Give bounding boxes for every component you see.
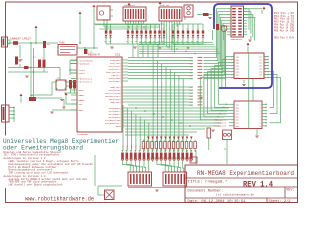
svg-text:8: 8: [265, 68, 266, 70]
svg-text:7805: 7805: [59, 42, 65, 45]
svg-text:8: 8: [259, 123, 260, 125]
svg-text:PD6 Pin 5 R/W: PD6 Pin 5 R/W: [274, 35, 294, 39]
svg-text:8: 8: [265, 62, 266, 64]
svg-text:IC1: IC1: [115, 53, 121, 56]
svg-text:TITLE: rnmega8.*: TITLE: rnmega8.*: [188, 180, 228, 185]
svg-text:R1: R1: [181, 41, 183, 43]
svg-text:LE: LE: [153, 28, 155, 30]
svg-text:PB0: PB0: [189, 99, 192, 101]
svg-text:PB5(SCK): PB5(SCK): [110, 101, 121, 104]
svg-text:PB0: PB0: [189, 102, 192, 104]
svg-text:MEGA8-P: MEGA8-P: [88, 53, 101, 56]
svg-text:Date: 08.12.2004 10:15:51: Date: 08.12.2004 10:15:51: [188, 200, 247, 204]
svg-text:LE: LE: [126, 28, 128, 30]
svg-text:8: 8: [259, 126, 260, 128]
svg-text:R1: R1: [201, 41, 203, 43]
svg-text:LE: LE: [176, 28, 178, 30]
svg-text:R1: R1: [104, 41, 106, 43]
svg-text:SUB-D9: SUB-D9: [160, 4, 170, 7]
svg-text:ADC6: ADC6: [116, 125, 122, 128]
svg-text:R1: R1: [135, 41, 137, 43]
svg-text:2: 2: [231, 62, 232, 64]
svg-text:R1: R1: [186, 41, 188, 43]
svg-text:2: 2: [231, 71, 232, 73]
svg-text:R1: R1: [158, 41, 160, 43]
svg-text:2: 2: [231, 77, 232, 79]
svg-text:2: 2: [231, 65, 232, 67]
svg-text:PD0: PD0: [189, 60, 192, 62]
svg-text:2: 2: [231, 68, 232, 70]
svg-text:XTAL2: XTAL2: [79, 72, 86, 75]
svg-text:AGND: AGND: [79, 99, 85, 102]
svg-text:R1: R1: [162, 41, 164, 43]
svg-text:PD0: PD0: [189, 69, 192, 71]
svg-text:(c) robotikhardware.de: (c) robotikhardware.de: [216, 192, 254, 196]
svg-text:PD0: PD0: [189, 72, 192, 74]
svg-text:10k: 10k: [19, 58, 24, 61]
svg-text:8: 8: [265, 77, 266, 79]
svg-text:VCC: VCC: [79, 103, 84, 106]
svg-text:PB0: PB0: [189, 96, 192, 98]
svg-text:PD6 Pin 14 IRQ: PD6 Pin 14 IRQ: [274, 28, 294, 32]
svg-text:REV 1.4: REV 1.4: [243, 182, 273, 190]
svg-text:R1: R1: [191, 41, 193, 43]
svg-text:LWC Ausfall sehr Board eingesc: LWC Ausfall sehr Board eingeschaltet: [9, 184, 64, 187]
svg-text:PD7(AIN1): PD7(AIN1): [109, 80, 121, 83]
svg-text:R1: R1: [176, 41, 178, 43]
svg-text:8: 8: [265, 56, 266, 58]
svg-text:PD0: PD0: [189, 63, 192, 65]
svg-text:8: 8: [265, 71, 266, 73]
svg-text:LE: LE: [196, 28, 198, 30]
svg-text:PD0: PD0: [189, 57, 192, 59]
svg-text:8: 8: [259, 120, 260, 122]
svg-text:8: 8: [259, 104, 260, 106]
svg-text:PD0: PD0: [189, 75, 192, 77]
svg-text:PB7(TOSC2): PB7(TOSC2): [79, 81, 93, 84]
svg-text:R1: R1: [109, 41, 111, 43]
svg-text:1A1: 1A1: [236, 77, 241, 80]
svg-text:LE: LE: [135, 28, 137, 30]
svg-text:1Y1: 1Y1: [259, 77, 264, 80]
svg-text:RN-MEGA8 Experimentierboard: RN-MEGA8 Experimentierboard: [197, 170, 294, 177]
svg-text:8: 8: [265, 65, 266, 67]
svg-text:R1: R1: [196, 41, 198, 43]
svg-text:8: 8: [259, 111, 260, 113]
svg-text:R1: R1: [131, 41, 133, 43]
svg-text:ATMEGA8: ATMEGA8: [77, 133, 89, 136]
svg-text:REV:: REV:: [287, 188, 295, 192]
svg-text:LE: LE: [162, 28, 164, 30]
svg-text:www.robotikhardware.de: www.robotikhardware.de: [25, 195, 94, 203]
svg-text:8: 8: [265, 59, 266, 61]
svg-text:R1: R1: [144, 41, 146, 43]
svg-text:AREF: AREF: [79, 94, 85, 97]
svg-text:R1: R1: [149, 41, 151, 43]
svg-text:LE: LE: [104, 28, 106, 30]
svg-text:PD0: PD0: [189, 78, 192, 80]
svg-text:R1: R1: [153, 41, 155, 43]
svg-text:PD0(RXD): PD0(RXD): [79, 63, 90, 66]
svg-text:PC0(ADC0): PC0(ADC0): [214, 125, 226, 128]
svg-text:LE: LE: [144, 28, 146, 30]
svg-text:2: 2: [231, 59, 232, 61]
svg-text:PB0: PB0: [189, 105, 192, 107]
svg-text:WANNE16: WANNE16: [231, 38, 243, 41]
svg-text:8: 8: [259, 107, 260, 109]
svg-text:GND: GND: [79, 109, 84, 112]
svg-text:2: 2: [231, 56, 232, 58]
svg-text:8: 8: [259, 117, 260, 119]
svg-text:LM317: LM317: [22, 38, 32, 41]
svg-text:8: 8: [259, 114, 260, 116]
svg-text:PB0: PB0: [189, 87, 192, 89]
svg-text:8: 8: [265, 74, 266, 76]
svg-text:R1: R1: [126, 41, 128, 43]
svg-text:1N4007: 1N4007: [10, 38, 22, 41]
svg-text:R1: R1: [140, 41, 142, 43]
svg-text:2: 2: [231, 74, 232, 76]
svg-text:LE: LE: [186, 28, 188, 30]
svg-text:PD0: PD0: [189, 66, 192, 68]
svg-text:R1: R1: [171, 41, 173, 43]
svg-text:Sheet: 2/2: Sheet: 2/2: [269, 199, 292, 204]
svg-text:PB0: PB0: [189, 93, 192, 95]
svg-text:PB0: PB0: [189, 90, 192, 92]
svg-text:AVCC: AVCC: [79, 89, 85, 92]
